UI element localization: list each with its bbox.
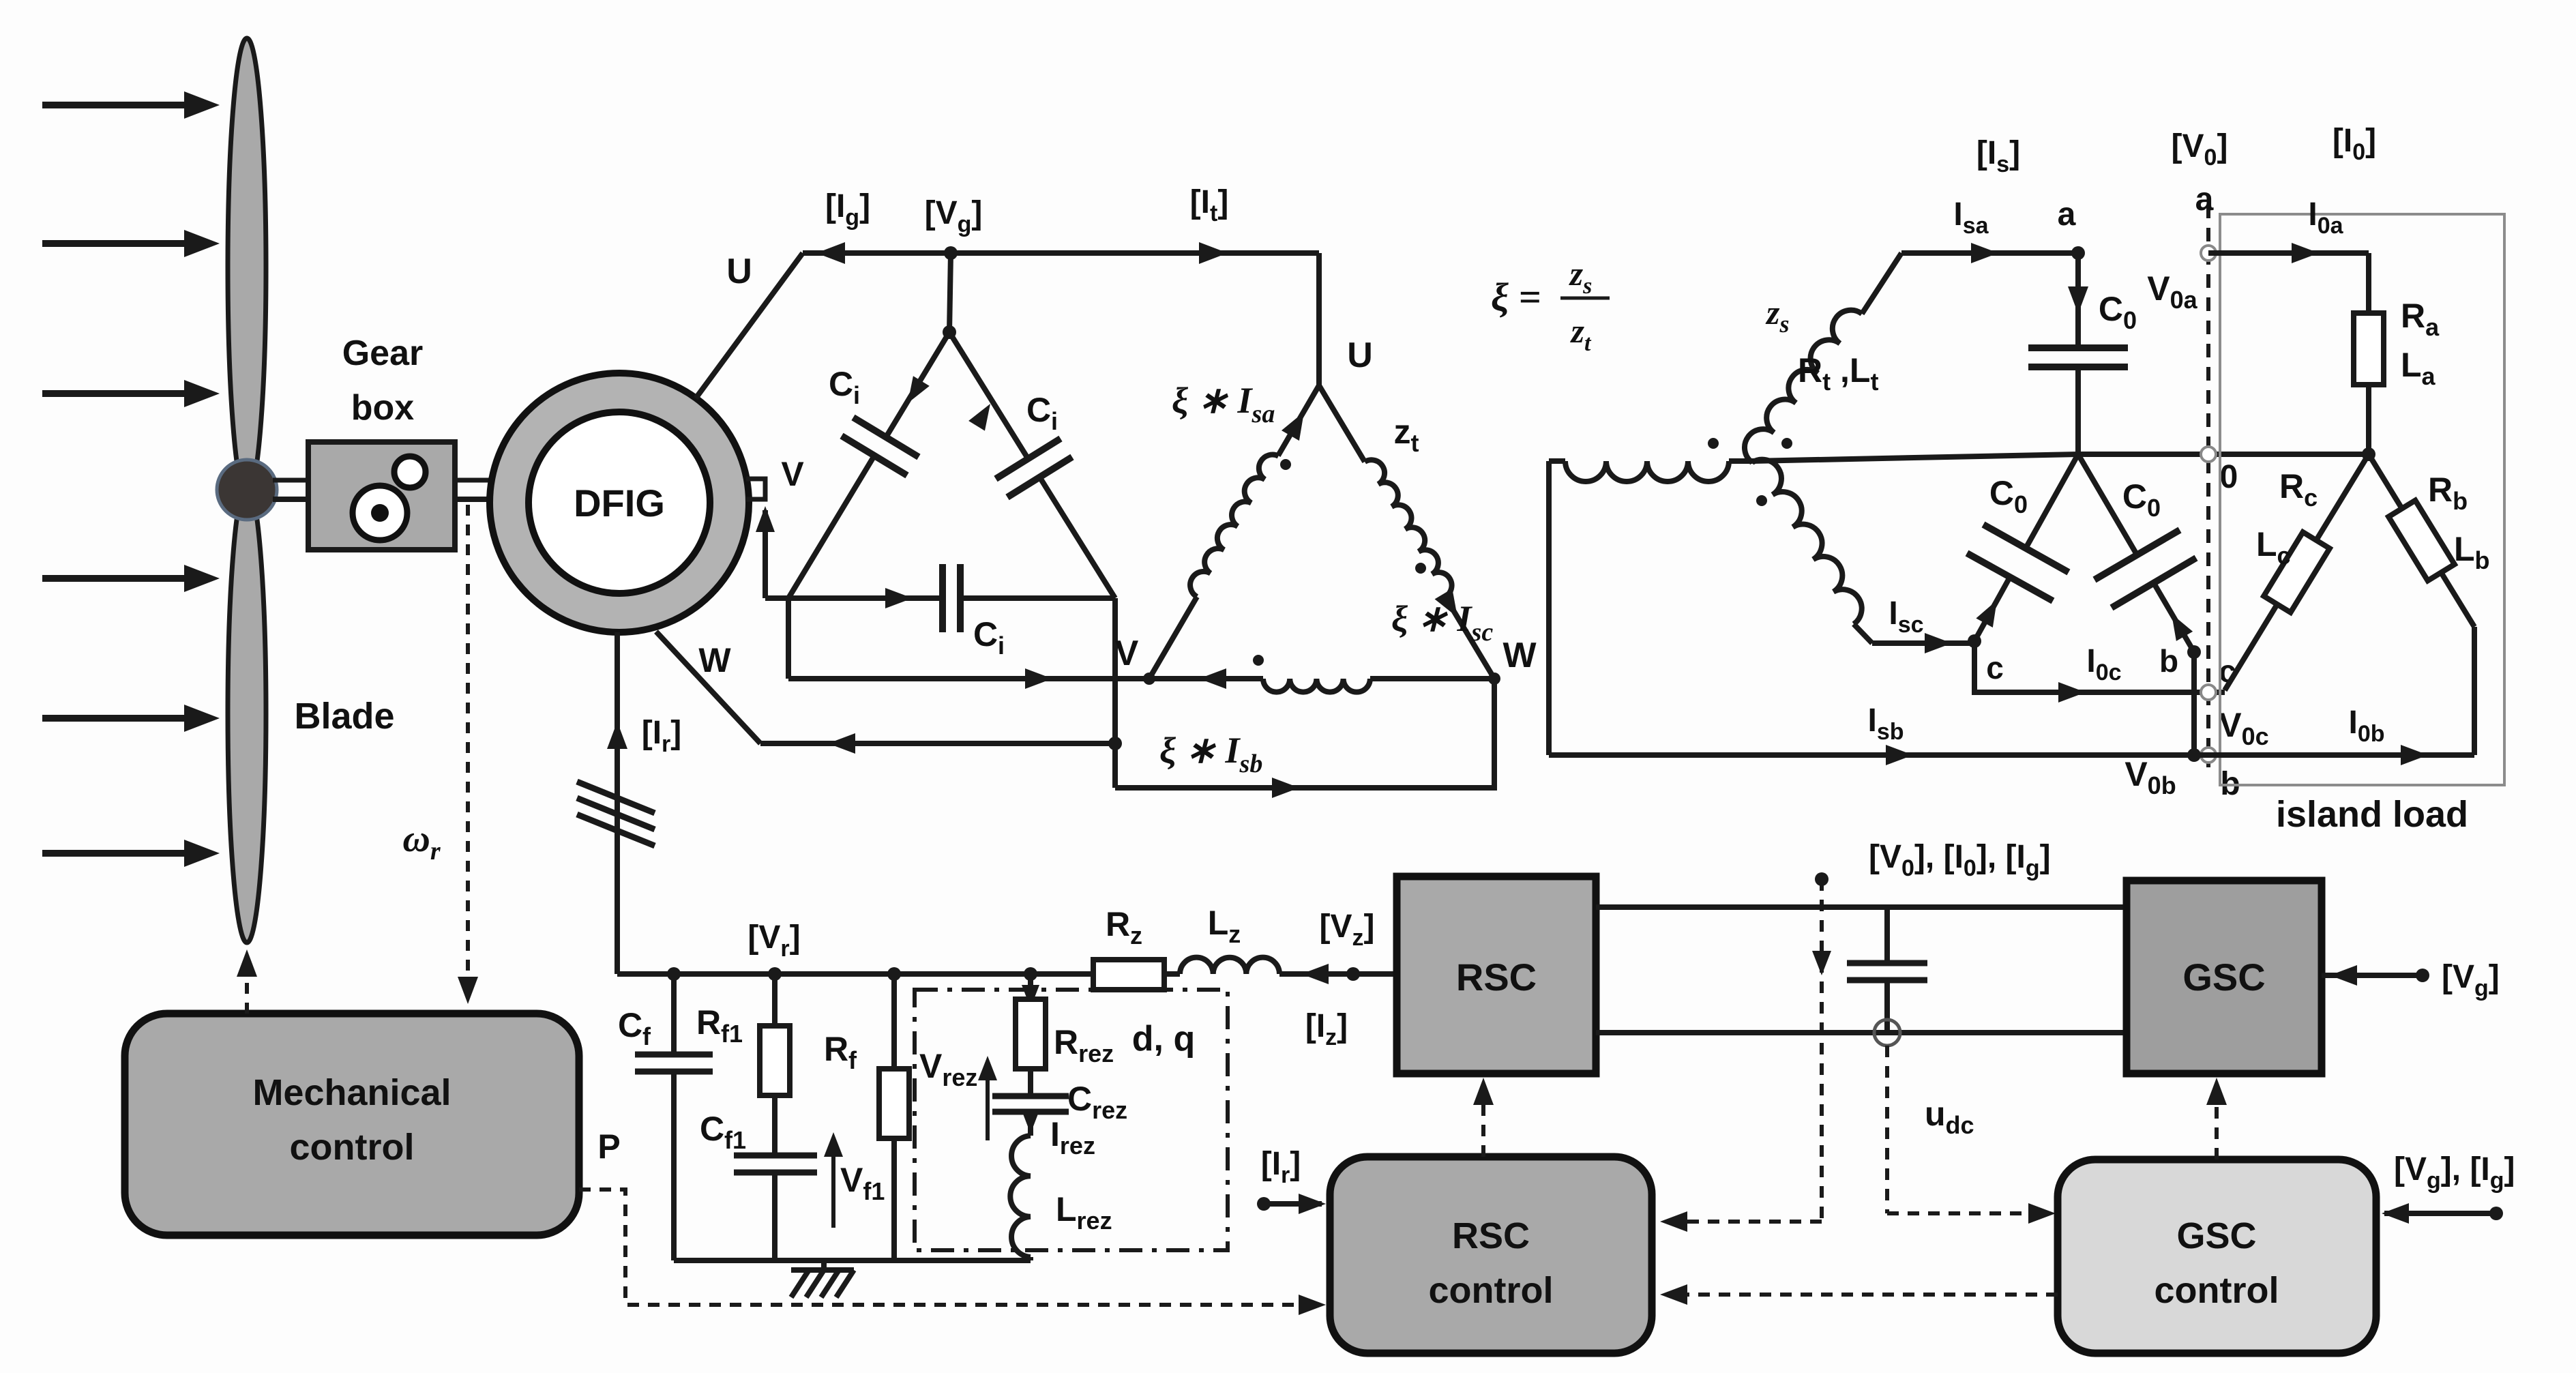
svg-text:[Ir]: [Ir] [642, 715, 682, 757]
wire rotor Ir [615, 632, 620, 974]
svg-text:box: box [351, 388, 415, 428]
dashed GSC control to RSC control [1668, 1293, 2058, 1297]
svg-text:GSC: GSC [2176, 1215, 2256, 1256]
svg-text:[Vr]: [Vr] [747, 919, 800, 962]
capacitor Ci left [886, 332, 949, 437]
capacitor C0 left branch [2026, 454, 2078, 548]
svg-text:Blade: Blade [294, 696, 394, 737]
svg-text:[Vg]: [Vg] [925, 195, 983, 237]
node b [2187, 645, 2201, 659]
wire U diagonal DFIG to bus [696, 253, 803, 398]
svg-text:control: control [1429, 1270, 1554, 1311]
arrow Ig [816, 242, 845, 264]
dashed wire mech-to-blade [245, 955, 249, 1014]
island load box [2220, 214, 2504, 785]
udc node circle [1874, 1020, 1900, 1046]
wire star-to-island horizontal [1752, 454, 2078, 461]
svg-text:W: W [698, 641, 731, 679]
wire delta BL down [786, 598, 791, 679]
svg-text:Mechanical: Mechanical [252, 1072, 451, 1113]
sense node circles [2201, 246, 2216, 261]
block GSC control [2058, 1160, 2376, 1353]
svg-text:GSC: GSC [2182, 956, 2265, 999]
wire Isa [1901, 250, 2078, 256]
svg-text:DFIG: DFIG [574, 482, 665, 525]
dc-link capacitor [1884, 907, 1890, 963]
wind arrow 1 [42, 102, 198, 108]
svg-text:0: 0 [2220, 459, 2238, 495]
svg-text:[It]: [It] [1190, 184, 1229, 226]
dashed sense line to RSC control [1815, 872, 1829, 886]
wire bus to transformer U [1316, 253, 1322, 385]
resistor Rb Lb [2369, 454, 2474, 627]
shaft gearbox-DFIG [455, 478, 495, 483]
wire Ir input [1257, 1197, 1271, 1211]
resistor Rz [1093, 960, 1164, 990]
svg-text:[Vg]: [Vg] [2442, 959, 2500, 1001]
arrow Vz [1301, 964, 1329, 984]
wire Vg to Ci delta apex [949, 253, 951, 332]
wire filter bottom [674, 1258, 1031, 1263]
node V0b [2187, 748, 2201, 762]
resistor Rf [887, 967, 901, 981]
blade lower [228, 484, 266, 943]
capacitor Ci bottom [788, 595, 943, 601]
node island center [2362, 447, 2375, 461]
svg-text:W: W [1502, 636, 1537, 675]
wind arrow 3 [42, 390, 198, 397]
capacitor Crez [992, 1093, 1069, 1099]
svg-text:RSC: RSC [1452, 1215, 1530, 1256]
wire Vg Ig input [2489, 1207, 2503, 1220]
transformer delta bottom winding [1149, 676, 1263, 681]
inductor Lrez [1010, 1136, 1031, 1257]
svg-text:control: control [2155, 1270, 2279, 1311]
wire Rb down [2472, 627, 2477, 755]
svg-text:Gear: Gear [342, 334, 424, 373]
wire I0c [1974, 641, 2225, 692]
hub [217, 460, 277, 520]
dashed GSC control to GSC [2215, 1083, 2219, 1160]
wire Isb [1549, 752, 2194, 758]
arrow Irez [1022, 1110, 1039, 1134]
svg-text:V: V [1115, 634, 1139, 673]
capacitor C0 right branch [2078, 454, 2137, 555]
inductor Lz [1164, 971, 1180, 977]
capacitor Cf [667, 967, 681, 981]
wire b down to V0b [2191, 652, 2197, 755]
wire I0b [2194, 752, 2474, 758]
blade upper [228, 38, 266, 497]
shaft blade-gearbox [273, 478, 308, 483]
wind arrow 6 [42, 850, 198, 857]
node c [1968, 634, 1981, 648]
gear box [308, 442, 455, 550]
transformer delta right winding [1319, 385, 1365, 462]
svg-text:a: a [2058, 196, 2076, 233]
nodes V W [1143, 673, 1155, 685]
converter RSC [1397, 876, 1596, 1074]
resistor Rrez [1024, 967, 1037, 981]
dashed udc line [1885, 1046, 1889, 1213]
secondary lower winding [1752, 452, 1870, 624]
svg-text:[Vz]: [Vz] [1320, 909, 1375, 951]
svg-text:island load: island load [2276, 794, 2468, 835]
wire I0a [2208, 250, 2369, 256]
svg-text:U: U [1347, 336, 1373, 375]
svg-text:a: a [2195, 181, 2214, 218]
dashed wire P [579, 1190, 1322, 1305]
svg-text:[V0], [I0], [Ig]: [V0], [I0], [Ig] [1869, 839, 2051, 881]
wind arrow 5 [42, 715, 198, 722]
polarity dots secondary [1708, 438, 1719, 449]
wind arrow 2 [42, 240, 198, 247]
wire top bus Vg [803, 250, 1319, 256]
polarity dots transformer [1280, 459, 1291, 470]
wire V bus to transformer [788, 676, 1149, 681]
capacitor Cf1 [734, 1153, 817, 1159]
resistor Rc Lc [2225, 454, 2369, 690]
svg-text:P: P [597, 1127, 620, 1166]
svg-text:ξ =: ξ = [1491, 275, 1541, 319]
dc bus bottom [1596, 1030, 2127, 1035]
svg-text:V: V [781, 455, 804, 493]
arrow Vrez [986, 1063, 990, 1140]
three-phase slashes [577, 782, 655, 813]
transformer delta left winding [1149, 597, 1197, 679]
svg-text:RSC: RSC [1456, 956, 1537, 999]
svg-text:U: U [726, 252, 752, 291]
wire secondary left vertical [1546, 461, 1552, 755]
wire W bus [760, 741, 1115, 746]
secondary left winding [1549, 458, 1565, 464]
wire rotor to Vr bus [617, 971, 1093, 977]
resistor Rf1 [768, 967, 782, 981]
arrow Vf1 [831, 1140, 835, 1228]
node a [2071, 246, 2085, 260]
svg-text:[V0]: [V0] [2172, 128, 2228, 171]
dc bus top [1596, 904, 2127, 910]
block RSC control [1330, 1157, 1652, 1353]
block Mechanical control [125, 1014, 579, 1235]
capacitor C0 vertical [2075, 253, 2081, 348]
resistor Ra La [2366, 253, 2371, 313]
converter GSC [2127, 881, 2322, 1074]
svg-text:control: control [290, 1127, 415, 1168]
DFIG terminal V stub [746, 479, 765, 499]
capacitor Ci right [1039, 477, 1115, 598]
ground [821, 1260, 827, 1270]
wire delta BR down [1112, 598, 1118, 788]
dashed wire omega_r [466, 505, 470, 993]
svg-text:b: b [2159, 643, 2178, 679]
arrow It [1199, 242, 1228, 264]
wire Isc [1872, 640, 1974, 646]
svg-text:c: c [1986, 650, 2004, 685]
svg-text:d, q: d, q [1132, 1019, 1195, 1059]
node Vg [944, 246, 958, 260]
winding Zs (Rt,Lt) [1737, 303, 1862, 462]
svg-text:[Ir]: [Ir] [1261, 1146, 1301, 1188]
generator DFIG [490, 373, 749, 632]
wire Vg input [2322, 973, 2423, 978]
dashed RSC control to RSC [1481, 1083, 1485, 1157]
wire DFIG W diagonal [656, 632, 760, 743]
svg-text:Rt ,Lt: Rt ,Lt [1798, 351, 1878, 396]
dashed sense line V0 [2206, 205, 2210, 767]
wind arrow 4 [42, 575, 198, 582]
wire DFIG V to delta [763, 510, 768, 598]
dash-dot box d,q [915, 990, 1228, 1250]
wire xi*Isb loop [1115, 679, 1494, 788]
